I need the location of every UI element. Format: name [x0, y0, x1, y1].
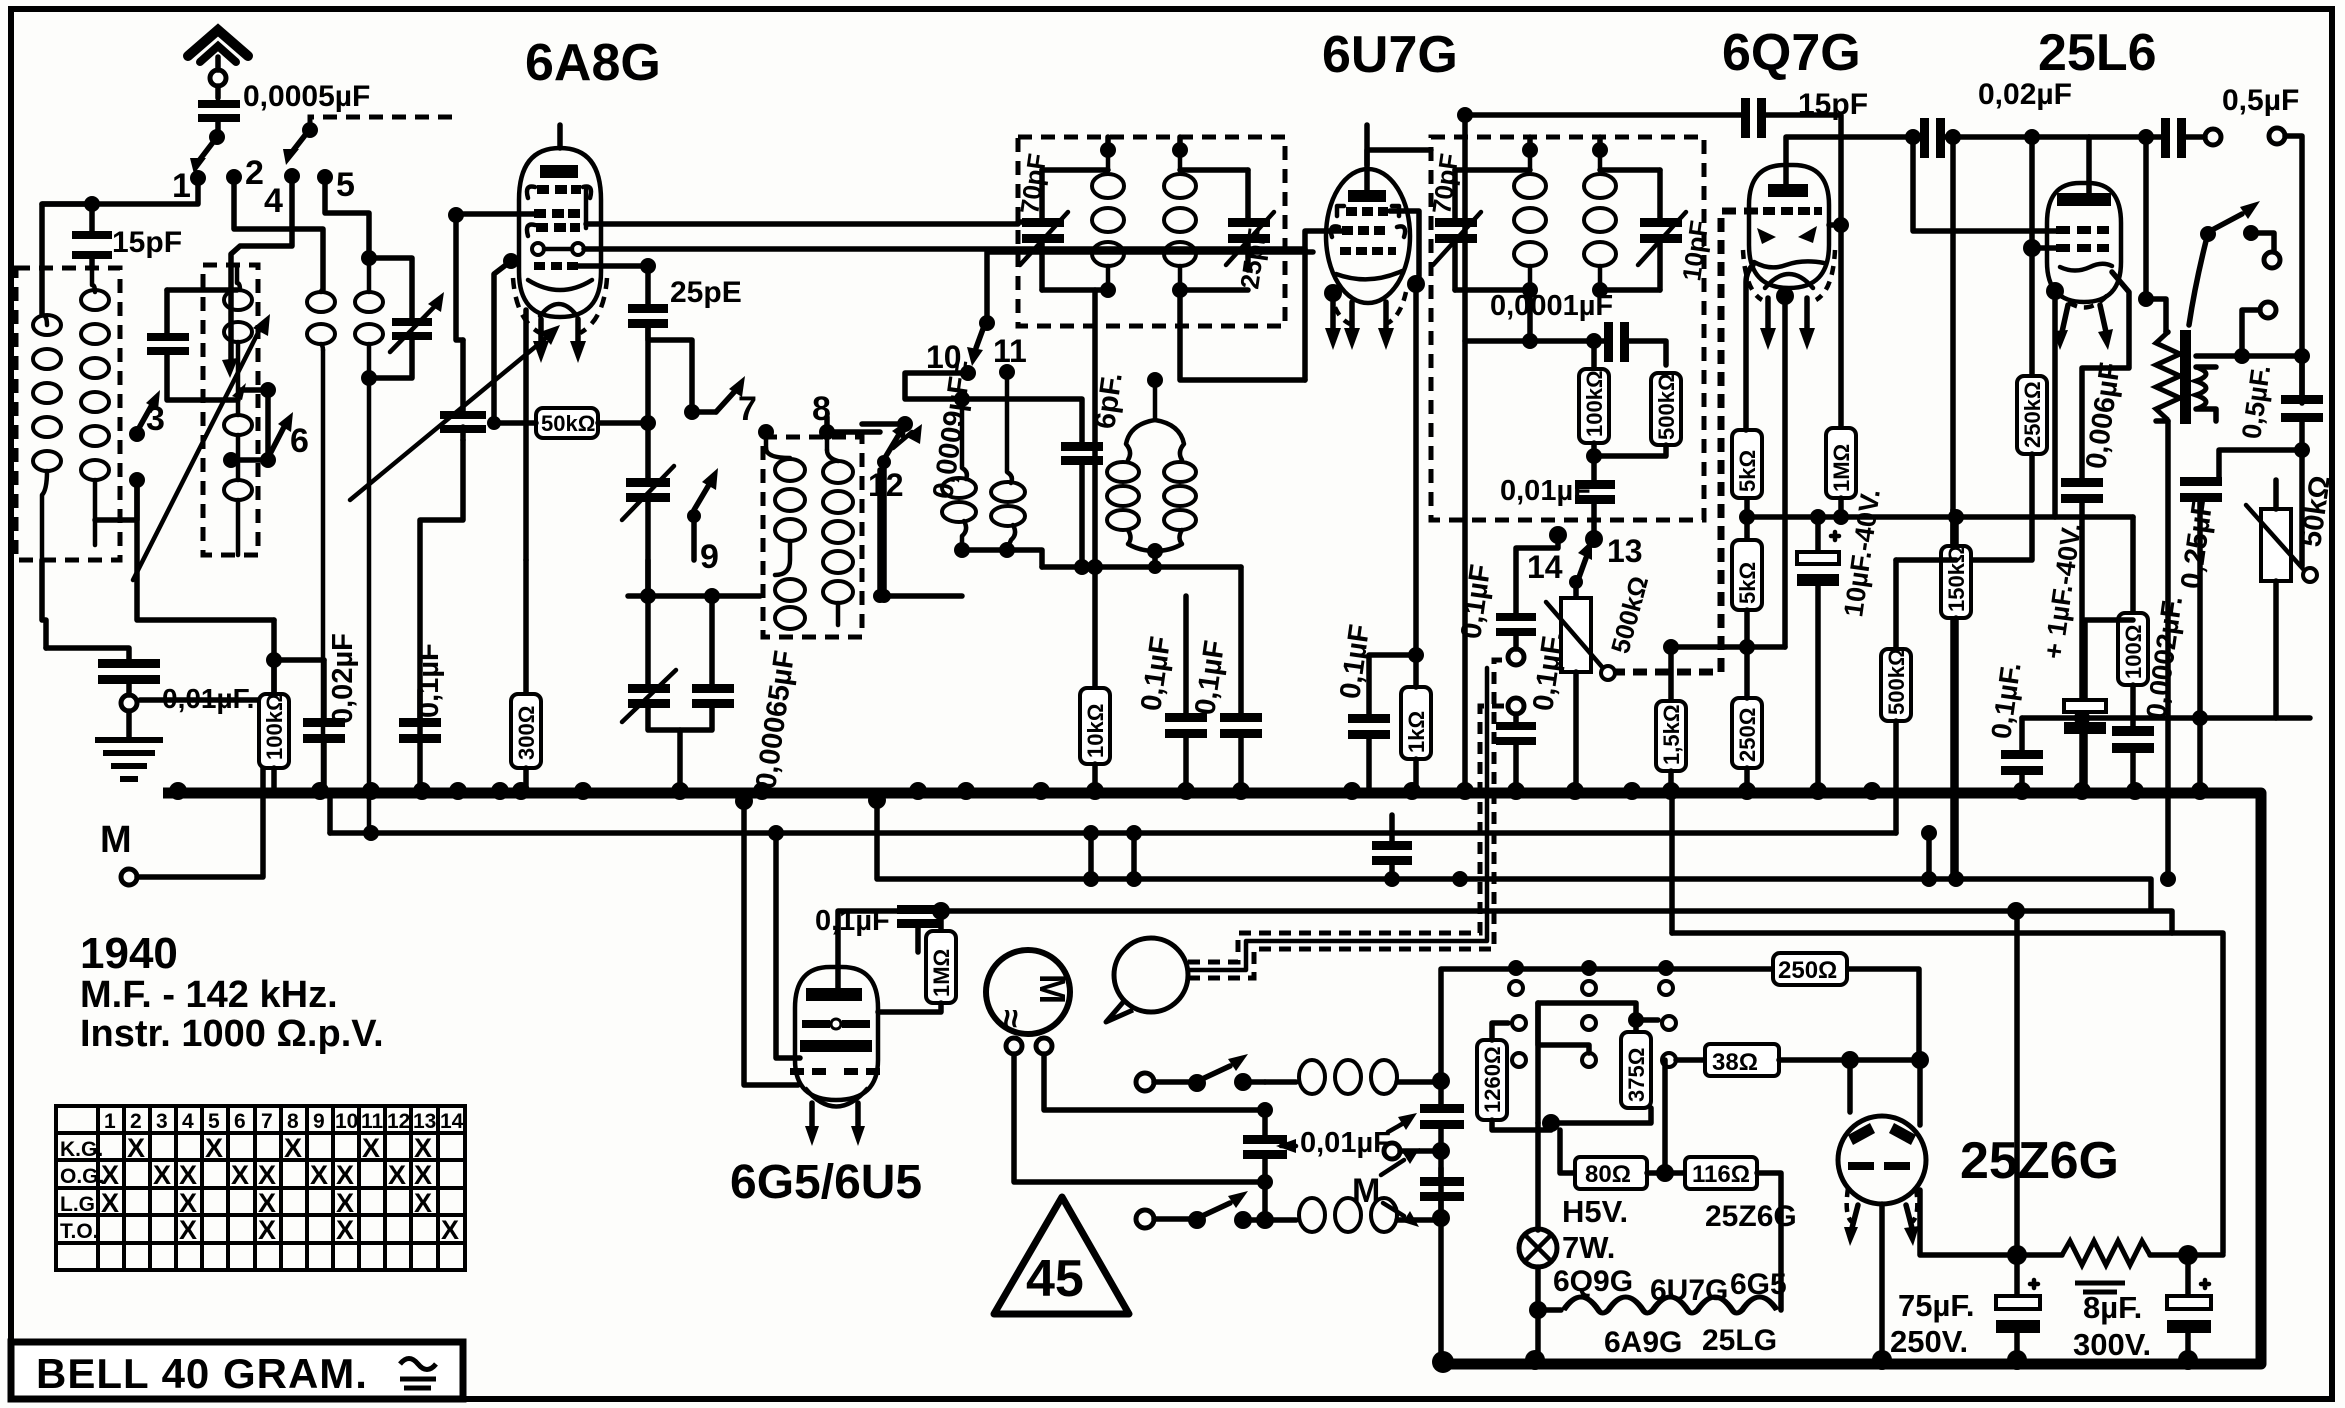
- svg-text:10: 10: [335, 1110, 358, 1133]
- mixer coil B: [1007, 378, 1012, 483]
- ground bus (chassis): [163, 793, 2261, 1364]
- heater arrows 6U7G: [1349, 302, 1355, 330]
- svg-text:15pF: 15pF: [112, 226, 182, 259]
- switch contact 6: [223, 452, 239, 468]
- svg-text:3: 3: [146, 400, 165, 438]
- svg-text:500kΩ: 500kΩ: [1884, 648, 1909, 715]
- svg-text:6G5: 6G5: [1730, 1268, 1787, 1301]
- AVC rail: [330, 830, 1896, 836]
- svg-text:50kΩ: 50kΩ: [541, 411, 595, 436]
- svg-text:BELL 40 GRAM.: BELL 40 GRAM.: [36, 1350, 368, 1397]
- tube 6U7G envelope: [1326, 169, 1410, 303]
- variable capacitor tuning 2 (osc): [460, 340, 466, 440]
- wire 6Q7G cathode left: [1746, 265, 1753, 430]
- capacitor 0,1uF left: [417, 690, 423, 718]
- wire contact4 to RF tap: [231, 183, 292, 360]
- diode plates 6Q7G: [1757, 228, 1776, 244]
- resistor 5kOhm: [1744, 497, 1750, 540]
- svg-text:6U7G: 6U7G: [1650, 1274, 1728, 1307]
- resistor 100kOhm diode load: [1591, 341, 1597, 369]
- IF2 primary coil: [1528, 150, 1533, 168]
- pilot lamp 115V 7W: [1535, 1123, 1541, 1230]
- wire band feed top: [987, 252, 1313, 323]
- grid bracket 6U7G: [1390, 211, 1419, 278]
- svg-text:6: 6: [290, 422, 309, 460]
- svg-text:1MΩ: 1MΩ: [1829, 444, 1854, 492]
- transformer core: [2180, 330, 2191, 424]
- svg-text:X: X: [336, 1160, 354, 1190]
- svg-text:6A9G: 6A9G: [1604, 1326, 1682, 1359]
- wire osc gang top: [456, 210, 463, 340]
- svg-text:4: 4: [182, 1110, 194, 1133]
- anode bar 6U7G: [1348, 190, 1386, 202]
- triangle mark 45: [994, 1197, 1129, 1314]
- IF2 wires: [1522, 142, 1538, 158]
- capacitor 0,1uF pickup bottom: [1508, 698, 1524, 714]
- wire detector row: [1042, 564, 1241, 570]
- cathode 6A8G: [532, 243, 544, 255]
- mains switch row 2: [1136, 1210, 1154, 1228]
- svg-text:100Ω: 100Ω: [2121, 625, 2146, 679]
- resistor 375 Ohm: [1621, 1032, 1651, 1108]
- wire 25L6 beam to tone cap: [2082, 272, 2129, 478]
- svg-text:25pE: 25pE: [670, 276, 742, 309]
- node contact 12: [897, 416, 913, 432]
- shield can box1 (antenna coil): [16, 268, 120, 560]
- svg-text:M: M: [1032, 974, 1073, 1004]
- node 6Q7G diode right: [1833, 217, 1849, 233]
- node 6Q7G cathode: [1776, 287, 1794, 305]
- resistor 5kOhm upper: [1732, 430, 1762, 498]
- svg-text:6G5/6U5: 6G5/6U5: [730, 1156, 922, 1209]
- node contact 5: [317, 169, 333, 185]
- resistor 100Ohm: [2118, 613, 2148, 685]
- node contact 4: [284, 168, 300, 184]
- node contact 2: [226, 169, 242, 185]
- svg-text:8µF.: 8µF.: [2083, 1290, 2142, 1325]
- osc trimmer A: [628, 560, 760, 596]
- trimmer 70pF IF1: [1039, 170, 1045, 290]
- taps mains: [1508, 960, 1524, 976]
- svg-text:0,01µF: 0,01µF: [1300, 1127, 1391, 1159]
- power box top wire: [1441, 969, 1919, 1081]
- svg-text:X: X: [153, 1160, 171, 1190]
- wire 6G5 cathode from bus: [744, 793, 798, 1085]
- B+ rail 4: [1672, 930, 2172, 936]
- node osc grid left: [503, 253, 519, 269]
- cathode arc 6U7G: [1336, 271, 1402, 279]
- resistor 50kOhm: [536, 408, 598, 438]
- wire 6A8G cathode down: [523, 310, 529, 560]
- electrolytic 8uF 300V: [2185, 1255, 2191, 1295]
- IF1 primary feed down: [1092, 290, 1098, 688]
- trimmer 70pF IF2: [1452, 170, 1458, 290]
- cathode wavy 25L6: [2060, 264, 2112, 271]
- wire coil1 bottom to ground cap: [42, 560, 46, 648]
- tube 25L6 envelope: [2047, 183, 2121, 302]
- switch arm contact 4: [302, 122, 318, 138]
- heater arrows 25L6: [2062, 305, 2068, 332]
- svg-text:100kΩ: 100kΩ: [1582, 370, 1607, 437]
- switch table: [56, 1106, 465, 1270]
- wire contact1 to junction: [42, 184, 198, 315]
- svg-text:75µF.: 75µF.: [1898, 1288, 1974, 1323]
- svg-text:1MΩ: 1MΩ: [929, 949, 954, 997]
- approx symbol: [400, 1359, 436, 1389]
- capacitor 1uF 40V left: [1389, 864, 1395, 879]
- node 6U7G cathode right: [1407, 275, 1425, 293]
- svg-text:375Ω: 375Ω: [1624, 1048, 1649, 1102]
- svg-text:1: 1: [172, 167, 191, 205]
- switch arrow 13: [1578, 558, 1586, 580]
- wire 15pF feed down: [1465, 115, 1530, 341]
- svg-text:X: X: [336, 1215, 354, 1245]
- svg-text:7: 7: [261, 1110, 273, 1133]
- svg-text:O.G.: O.G.: [60, 1165, 104, 1188]
- vertical feeds to rails: [1088, 833, 1094, 879]
- BELL nameplate box: [11, 1342, 463, 1399]
- mixer coil A: [962, 399, 967, 479]
- wire primary B+: [2165, 421, 2171, 879]
- svg-text:5: 5: [336, 166, 355, 204]
- choke row 1: [1265, 1079, 1296, 1085]
- heater network inner frame: [1538, 1003, 1636, 1032]
- wire M right terminal: [1044, 1054, 1265, 1110]
- resistor 500kOhm AVC: [1651, 373, 1681, 445]
- resistor 100kOhm: [271, 620, 277, 694]
- resistor 250Ohm: [1732, 698, 1762, 768]
- wire 6A8G top cap: [557, 125, 563, 148]
- svg-text:≈: ≈: [992, 1009, 1030, 1028]
- svg-text:K.G.: K.G.: [60, 1138, 103, 1161]
- capacitor 25pE: [645, 266, 651, 304]
- svg-text:25Z6G: 25Z6G: [1960, 1132, 2119, 1190]
- resistor 1MOhm 6G5: [938, 911, 944, 931]
- anode bar 6Q7G: [1768, 184, 1808, 197]
- 6G5 grid dashes: [790, 1068, 880, 1075]
- filter resistor: [2062, 1241, 2150, 1265]
- svg-text:7W.: 7W.: [1562, 1230, 1615, 1265]
- node contact 8: [819, 424, 835, 440]
- node contact 11: [999, 364, 1015, 380]
- node osc row: [877, 589, 891, 603]
- switch arrow 7: [716, 390, 736, 412]
- svg-text:X: X: [258, 1160, 276, 1190]
- wire bottom-left bus riser: [1438, 1168, 1444, 1360]
- resistor 116 Ohm: [1656, 1164, 1674, 1182]
- IF1 primary coil: [1106, 150, 1111, 168]
- 6G5 top bar: [806, 988, 862, 1001]
- svg-text:250kΩ: 250kΩ: [2020, 381, 2045, 448]
- svg-text:5kΩ: 5kΩ: [1735, 562, 1760, 604]
- svg-text:9: 9: [700, 538, 719, 576]
- node junction 15pF: [84, 196, 100, 212]
- 25Z6G cathodes: [1848, 1162, 1874, 1170]
- antenna: [215, 57, 221, 98]
- shield can box2 (RF coil): [203, 265, 258, 555]
- node bus bumps top: [169, 782, 2209, 800]
- svg-text:6A8G: 6A8G: [525, 34, 661, 92]
- node contact 14: [1549, 526, 1567, 544]
- mains switch row 1: [1136, 1073, 1154, 1091]
- svg-text:10kΩ: 10kΩ: [1083, 704, 1108, 758]
- 6G5 heater arrows: [809, 1103, 815, 1128]
- svg-text:M.F. - 142 kHz.: M.F. - 142 kHz.: [80, 974, 338, 1016]
- tube 6G5 envelope: [795, 967, 878, 1100]
- svg-text:300Ω: 300Ω: [514, 706, 539, 760]
- svg-text:38Ω: 38Ω: [1712, 1049, 1758, 1076]
- wire 6U7G grid left: [1305, 231, 1342, 380]
- node RF tap: [260, 382, 276, 398]
- IF1 secondary to 6U7G grid: [1180, 290, 1305, 380]
- 25Z6G cathode out: [1879, 1204, 1885, 1360]
- tone pot 50kOhm: [2261, 509, 2291, 581]
- svg-text:2: 2: [245, 154, 264, 192]
- svg-text:M: M: [100, 819, 132, 861]
- svg-text:X: X: [362, 1133, 380, 1163]
- capacitor 0,1uF IF1: [1238, 567, 1244, 713]
- shield can box osc: [763, 437, 862, 637]
- wire 25L6 grid left: [1913, 137, 2056, 231]
- svg-text:X: X: [441, 1215, 459, 1245]
- 25Z6G anodes: [1848, 1123, 1875, 1145]
- resistor 1,5kOhm 6Q7G cathode: [1668, 647, 1674, 701]
- IF transformer 1 shield box: [1018, 137, 1285, 326]
- 25Z6G anode feeds: [1850, 1060, 1920, 1125]
- wire coil bottoms: [954, 542, 970, 558]
- wire 6A8G cathode row right: [584, 246, 1305, 252]
- svg-text:0,1µF: 0,1µF: [413, 643, 445, 718]
- shielded pair to pickup: [1188, 706, 1506, 962]
- capacitor 0,1uF pickup top: [1516, 541, 1558, 613]
- grid row2 6U7G: [1331, 226, 1339, 237]
- B+ rail 2: [838, 911, 2223, 1253]
- grid row 4 6A8G: [534, 262, 578, 270]
- svg-text:X: X: [414, 1160, 432, 1190]
- svg-text:X: X: [179, 1160, 197, 1190]
- wire contact10 row: [905, 373, 1082, 442]
- wire 6Q7G triode grid left: [1615, 211, 1758, 672]
- svg-text:Instr. 1000 Ω.p.V.: Instr. 1000 Ω.p.V.: [80, 1013, 384, 1055]
- wire 8 to coupling: [827, 429, 880, 435]
- svg-text:14: 14: [440, 1110, 464, 1133]
- resistor 250 Ohm mains: [1773, 953, 1847, 985]
- output transformer primary: [2146, 299, 2166, 332]
- svg-text:250Ω: 250Ω: [1735, 708, 1760, 762]
- wire 25L6 cathode left down: [2046, 282, 2064, 300]
- wire 6A8G grid2 to IF1: [586, 221, 1018, 227]
- grid bracket 6A8G: [584, 190, 589, 228]
- resistor 1MOhm 6Q7G diode load: [1838, 225, 1844, 428]
- anode bar 6A8G: [540, 165, 578, 178]
- svg-text:X: X: [258, 1188, 276, 1218]
- motor M circle: [986, 950, 1070, 1034]
- cathode arc 6Q7G: [1754, 261, 1824, 267]
- resistor 300 Ohm: [523, 560, 529, 694]
- arrow contact 9: [694, 483, 710, 510]
- node B+ filtered: [2178, 1245, 2198, 1265]
- svg-text:13: 13: [1607, 533, 1643, 569]
- svg-text:X: X: [310, 1160, 328, 1190]
- grid row 1 6A8G: [527, 186, 535, 198]
- svg-text:X: X: [205, 1133, 223, 1163]
- grid row 2 6A8G: [534, 209, 580, 218]
- wire M left terminal: [1014, 1054, 1265, 1182]
- resistor 1kOhm 6U7G: [1401, 687, 1431, 759]
- volume pot 500kOhm: [1573, 582, 1579, 598]
- resistor 1260 Ohm: [1477, 1040, 1507, 1120]
- switch arm contact 1: [209, 129, 225, 145]
- svg-text:0,0005µF: 0,0005µF: [243, 80, 370, 113]
- wire 6A8G signal grid left: [456, 211, 534, 217]
- 6G5 target bars: [802, 1020, 830, 1028]
- tube 6Q7G envelope: [1749, 165, 1829, 288]
- svg-text:250V.: 250V.: [1890, 1324, 1968, 1359]
- 25Z6G heater arrows: [1852, 1205, 1858, 1228]
- wire contact2 to coil3: [234, 184, 323, 290]
- svg-text:1260Ω: 1260Ω: [1480, 1046, 1505, 1113]
- coil osc anode: [825, 440, 830, 450]
- svg-text:X: X: [336, 1188, 354, 1218]
- svg-text:0,02µF: 0,02µF: [327, 633, 359, 724]
- svg-text:X: X: [388, 1160, 406, 1190]
- svg-text:0,5µF: 0,5µF: [2222, 84, 2299, 117]
- coil osc grid: [764, 440, 769, 448]
- svg-text:X: X: [258, 1215, 276, 1245]
- capacitor 0,02uF: [321, 660, 327, 718]
- 6U7G plate feed to IF2: [1367, 150, 1530, 341]
- wire 6U7G top cap: [1364, 125, 1370, 192]
- svg-text:X: X: [414, 1133, 432, 1163]
- svg-text:250Ω: 250Ω: [1778, 957, 1837, 984]
- svg-text:11: 11: [993, 333, 1027, 369]
- grid row3 6U7G: [1340, 247, 1396, 255]
- capacitor line cap 2b: [1420, 1177, 1464, 1186]
- svg-text:6: 6: [234, 1110, 246, 1133]
- svg-text:4: 4: [264, 182, 283, 220]
- node bus bumps bottom: [1432, 1350, 2198, 1373]
- svg-text:3: 3: [156, 1110, 168, 1133]
- svg-text:X: X: [179, 1215, 197, 1245]
- wire 25L6 top cap: [2086, 137, 2092, 193]
- IF2 secondary coil: [1598, 150, 1603, 168]
- svg-text:X: X: [101, 1188, 119, 1218]
- trimmer 10pF IF2: [1657, 170, 1663, 290]
- svg-text:300V.: 300V.: [2073, 1327, 2151, 1362]
- capacitor 0,1uF 6U7G cathode: [1369, 655, 1416, 714]
- grid row1 6U7G: [1337, 206, 1344, 216]
- svg-text:1kΩ: 1kΩ: [1404, 711, 1429, 753]
- svg-text:5kΩ: 5kΩ: [1735, 450, 1760, 492]
- osc cap fixed: [692, 684, 734, 693]
- grid row 6Q7G: [1763, 207, 1822, 215]
- resistor 38 Ohm: [1662, 1053, 1676, 1067]
- svg-text:12: 12: [387, 1110, 410, 1133]
- trimmer 25pF IF1: [1245, 170, 1251, 270]
- capacitor 0,25uF: [2180, 477, 2222, 486]
- wire 6G5 grid from AVC rail: [776, 833, 800, 1058]
- svg-text:5: 5: [208, 1110, 220, 1133]
- variable capacitor tuning 1: [167, 290, 238, 400]
- resistor 150kOhm: [1953, 517, 1959, 546]
- svg-text:100kΩ: 100kΩ: [262, 693, 287, 760]
- svg-text:H5V.: H5V.: [1562, 1194, 1628, 1229]
- ground: [126, 711, 132, 737]
- wire tuning1 top: [167, 287, 237, 293]
- wire 6A8G osc anode right: [578, 263, 648, 269]
- wire cathode row 6Q7G: [1663, 639, 1679, 655]
- capacitor line cap 2a: [1420, 1104, 1464, 1113]
- electrolytic 75uF 250V: [2014, 1255, 2020, 1295]
- grid rows 25L6: [2056, 226, 2109, 252]
- resistor 250kOhm: [2029, 137, 2035, 376]
- choke row 2: [1265, 1217, 1296, 1223]
- tube 6A8G envelope: [519, 148, 601, 317]
- svg-text:8: 8: [287, 1110, 299, 1133]
- svg-text:11: 11: [361, 1110, 384, 1133]
- svg-text:116Ω: 116Ω: [1692, 1161, 1750, 1188]
- variable capacitor RF trimmer: [369, 258, 412, 378]
- wire 25L6 grid feed: [1950, 137, 1956, 510]
- svg-text:25LG: 25LG: [1702, 1324, 1777, 1357]
- svg-text:9: 9: [313, 1110, 325, 1133]
- svg-text:6U7G: 6U7G: [1322, 26, 1458, 84]
- svg-text:X: X: [231, 1160, 249, 1190]
- node B+ raw: [2007, 1245, 2027, 1265]
- svg-text:0,1µF: 0,1µF: [815, 905, 890, 937]
- resistor 500kOhm right: [1893, 560, 1899, 649]
- node coil C/D bottom: [1147, 543, 1163, 559]
- coil L-RF: [237, 268, 240, 290]
- svg-text:T.O.: T.O.: [60, 1220, 99, 1243]
- capacitor 15pF: [89, 204, 95, 268]
- node contact 1: [190, 170, 206, 186]
- capacitor 0,01uF to ground: [46, 648, 129, 659]
- grid row 3 6A8G: [527, 224, 535, 236]
- svg-text:13: 13: [413, 1110, 436, 1133]
- svg-text:6Q9G: 6Q9G: [1553, 1265, 1633, 1298]
- wire line caps vertical: [1438, 1081, 1444, 1218]
- node contact 13: [1585, 530, 1603, 548]
- resistor 10kOhm: [1080, 688, 1110, 764]
- svg-text:25Z6G: 25Z6G: [1705, 1200, 1797, 1233]
- capacitor 0,1uF AVC line: [1183, 596, 1189, 713]
- svg-text:150kΩ: 150kΩ: [1944, 545, 1969, 612]
- svg-text:25L6: 25L6: [2038, 24, 2157, 82]
- wire contact5 to coil4: [325, 184, 369, 250]
- svg-text:80Ω: 80Ω: [1585, 1161, 1631, 1188]
- switch contact 3: [129, 426, 145, 442]
- svg-text:0,02µF: 0,02µF: [1978, 78, 2072, 111]
- resistor 80 Ohm: [1560, 1130, 1575, 1173]
- coil L-ant primary: [33, 315, 61, 471]
- svg-text:6Q7G: 6Q7G: [1722, 24, 1861, 82]
- B+ rail 1: [877, 798, 2151, 910]
- node 6U7G left: [1324, 284, 1342, 302]
- svg-text:X: X: [127, 1133, 145, 1163]
- capacitor 6pF: [1061, 442, 1103, 451]
- anode bar 25L6: [2057, 193, 2111, 206]
- svg-text:500kΩ: 500kΩ: [1654, 373, 1679, 440]
- heater arrows 6Q7G: [1765, 298, 1771, 330]
- switch arrow 10: [979, 315, 995, 331]
- node cathode junction: [1408, 647, 1424, 663]
- capacitor 0,0005uF antenna: [198, 100, 240, 108]
- speaker: [1114, 938, 1188, 1012]
- svg-text:L.G.: L.G.: [60, 1193, 101, 1216]
- heater chain: [1538, 1307, 1561, 1313]
- dashed gang link top: [310, 117, 456, 127]
